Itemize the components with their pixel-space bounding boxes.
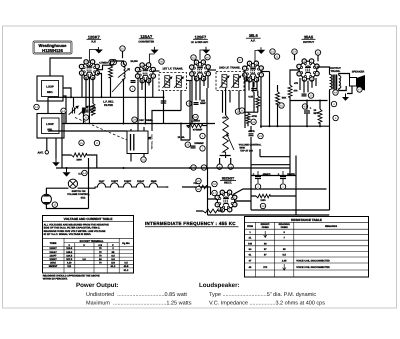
svg-text:470MMF: 470MMF (193, 129, 203, 132)
resistor surge in heater return (203, 209, 218, 213)
svg-text:1100: 1100 (260, 199, 266, 202)
svg-text:R.F.: R.F. (91, 41, 96, 44)
svg-text:35L6: 35L6 (249, 33, 259, 38)
svg-text:SOCKET TERMINAL: SOCKET TERMINAL (79, 240, 104, 243)
on-off switch circle (68, 179, 77, 188)
label rectifier 35Z5GT RECT. (220, 177, 236, 185)
wire output transformer primary lead down (329, 90, 331, 211)
oscillator transformer box (127, 131, 153, 154)
ref 23 right of 4mfd (258, 133, 263, 138)
electrolytic capacitor 20MFD filter (278, 171, 296, 183)
wire 4mfd hookup (250, 126, 252, 168)
svg-text:IS 117 V.A.C. SIGNAL VOLTAGE: IS 117 V.A.C. SIGNAL VOLTAGE IS ZERO. (44, 233, 92, 236)
ground at V3 grid cap (200, 47, 210, 60)
wire corner to osc trans (152, 111, 181, 132)
cap on x163.5 line (161, 101, 167, 103)
svg-text:0.05: 0.05 (248, 96, 253, 99)
wire y123.5 long horizontal (62, 123, 215, 125)
ref 21 top right of V4 (274, 54, 279, 59)
wire y126.2 bus (260, 125, 330, 127)
label L.F. REJ. FILTER (103, 100, 114, 106)
tube V2 12SA7 (135, 63, 155, 83)
transformer T3 core (333, 75, 336, 90)
node y100.5 x307 (306, 100, 308, 102)
ref 18 top right of V4 (270, 49, 275, 54)
trimmer capacitor oscillator section (134, 137, 143, 146)
ref 47 below speaker (357, 87, 362, 92)
cap 4MFD at vc (248, 130, 255, 136)
svg-text:LOOP: LOOP (46, 86, 54, 89)
label OUTPUT TRANS. (330, 67, 341, 73)
trimmer capacitor oscillator padder (141, 137, 150, 146)
svg-text:H125/H126: H125/H126 (42, 48, 63, 53)
wire x307 column (306, 101, 308, 127)
ground below loop primary (52, 158, 60, 166)
wire y156.7 stub (260, 149, 290, 157)
ref 31 below osc transformer (141, 157, 146, 162)
wire x62 vertical (61, 113, 63, 141)
svg-text:WITHIN 20 PERCENT.: WITHIN 20 PERCENT. (43, 278, 68, 281)
svg-text:ITEM: ITEM (247, 225, 253, 228)
ref 4 on B+ lead (331, 101, 336, 106)
resistor R 470K plate V4 (256, 96, 260, 107)
svg-text:43.5: 43.5 (124, 265, 129, 268)
tube V4 35L6 (243, 61, 264, 82)
svg-text:SEC.: SEC. (47, 91, 54, 94)
wire surge resistor (196, 209, 222, 211)
transformer T3 secondary (339, 76, 341, 89)
wire bottom bus y168 right part (207, 167, 290, 169)
ref 6 near det cap (186, 101, 191, 106)
model label box Westinghouse H125/H126 (33, 41, 72, 54)
wire V3 pins down (192, 76, 208, 124)
svg-text:12SK7: 12SK7 (49, 258, 57, 261)
ground at V2 grid cap (149, 47, 158, 64)
svg-text:LOOP: LOOP (46, 123, 54, 126)
svg-text:10,000: 10,000 (130, 60, 138, 63)
ref 45b above 20MFD (302, 104, 307, 109)
label tube V1 12SK7 R.F. (87, 34, 102, 43)
ref 33 left of V2 (111, 59, 116, 64)
svg-text:273: 273 (263, 266, 268, 269)
wire x73.5 vertical to trimmer (73, 97, 75, 107)
ref 40 right of V3 (205, 55, 210, 60)
wire V3 plate to T2 (208, 69, 216, 71)
svg-text:100MMF: 100MMF (194, 142, 204, 145)
svg-text:2.2MEG: 2.2MEG (191, 120, 200, 123)
node V1 screen bus (101, 96, 103, 98)
svg-text:INTERMEDIATE FREQUENCY : 455: INTERMEDIATE FREQUENCY : 455 KC (145, 221, 236, 226)
ref 14c with 6.3 label (78, 170, 87, 175)
ref 34 on avc divider (193, 114, 198, 119)
svg-text:6/12: 6/12 (81, 196, 86, 199)
svg-text:Power Output:: Power Output: (76, 282, 119, 289)
voltage and current table (43, 216, 134, 274)
ref 9 below volume control (217, 164, 222, 169)
wire ref19 stem to V5 (295, 54, 319, 61)
resistor R 2.2meg horizontal (187, 124, 203, 128)
svg-text:1ST I.F. TRANS.: 1ST I.F. TRANS. (162, 66, 183, 70)
wire rect right pin (235, 200, 251, 202)
resistance table (245, 217, 369, 278)
wire loop sec top to V1 grid (50, 58, 82, 76)
gang dashed coupling line (75, 118, 136, 145)
wire 56K column (277, 85, 279, 126)
svg-text:3300: 3300 (76, 159, 82, 162)
ref 3 on B+ lead (333, 115, 338, 120)
svg-text:2.95: 2.95 (282, 259, 287, 262)
wire wavetrap top joins (111, 61, 124, 97)
ref 11 right of vc top (235, 109, 240, 114)
wire V1 pins down (82, 75, 93, 124)
ground on bottom bus (63, 168, 71, 177)
ref 30 right of antenna trimmer (90, 106, 95, 111)
labels above filament bumps (99, 180, 157, 183)
wire x320 column (319, 101, 321, 127)
ref 17 heater lower (212, 190, 217, 195)
wire heater chain to rect (166, 186, 208, 188)
svg-text:A.F.: A.F. (251, 40, 256, 43)
svg-text:12SF7: 12SF7 (195, 34, 206, 39)
label tube V3 12SF7 I.F. & DET-AVC (191, 34, 209, 44)
svg-text:CONVERTER: CONVERTER (138, 40, 154, 43)
svg-text:91.2: 91.2 (111, 265, 116, 268)
svg-text:35A5: 35A5 (50, 262, 56, 265)
ref 1 under 20MFD (280, 184, 285, 189)
wire loop primary bottom to ground (55, 138, 57, 158)
svg-text:56K: 56K (282, 97, 287, 100)
svg-text:ANT.: ANT. (38, 151, 44, 154)
resistor R cathode V1 (91, 104, 95, 116)
wire x66 vertical (65, 111, 67, 124)
cap avc 100mmf (191, 146, 196, 148)
ref 44 on B+ lead (333, 90, 338, 95)
ref 19 upper-left of V5 (292, 49, 297, 54)
svg-text:Hg MA: Hg MA (122, 242, 130, 245)
svg-text:TUBE: TUBE (50, 242, 57, 245)
ref 14 left of antenna trimmer (61, 108, 66, 113)
filter section box wires (251, 156, 296, 216)
svg-text:4700: 4700 (252, 115, 258, 118)
cap 20MFD right (304, 109, 319, 115)
svg-text:245.0: 245.0 (66, 251, 73, 254)
wavetrap adjust arrow (112, 79, 124, 92)
ref 20 under V5 (308, 93, 313, 98)
label VOLUME CONTROL 500K TAP AT 100 (239, 143, 262, 152)
svg-text:112: 112 (67, 265, 72, 268)
resistor R 1100 filter (256, 194, 270, 198)
wire V1 screen right (97, 74, 102, 98)
svg-text:REMARKS: REMARKS (325, 225, 337, 228)
svg-text:OSC TRIMM.: OSC TRIMM. (139, 119, 154, 122)
cap C 0.05 at V4 grid (251, 89, 257, 91)
ref 37 near V1 plate resistor (109, 59, 114, 64)
loop antenna secondary box (37, 76, 63, 101)
svg-text:4.7MEG: 4.7MEG (99, 62, 108, 65)
wire y164.7 stub (251, 164, 290, 166)
svg-text:VOLTAGE AND CURRENT TABLE: VOLTAGE AND CURRENT TABLE (64, 217, 113, 221)
resistor R37 wave-trap (109, 66, 113, 78)
wire V5 plate to output transformer (317, 67, 330, 75)
ground at V4 grid cap (255, 47, 265, 61)
wire volume control bottom legs (220, 156, 231, 165)
band arrow at V2 (118, 69, 130, 78)
svg-text:12SF7: 12SF7 (111, 180, 119, 183)
svg-text:40MFD: 40MFD (263, 173, 271, 176)
heater filament chain (89, 183, 169, 188)
svg-text:Loudspeaker:: Loudspeaker: (199, 282, 240, 289)
svg-text:12SA7: 12SA7 (140, 34, 152, 39)
trimmer capacitor antenna padder (79, 106, 88, 115)
resistor R 1500 (318, 109, 322, 123)
wire 3300 hookup (62, 141, 97, 168)
note below voltage table (43, 274, 100, 280)
wire T2 secondary to V4 grid (244, 77, 247, 81)
wire AVC bus y97.3 (48, 96, 164, 98)
wire x207 vertical (206, 88, 208, 168)
ref 5 below 470MMF (200, 133, 205, 138)
svg-text:4MFD: 4MFD (248, 130, 255, 133)
label tube V4 35L6 A.F. (246, 33, 261, 43)
wire rect plate diagonal (233, 189, 327, 195)
tube V6 rectifier 35Z5GT (215, 190, 237, 212)
ref 35 near V2 left (121, 61, 126, 66)
ref 13 between loop boxes (34, 104, 39, 109)
svg-text:RECT.: RECT. (224, 181, 232, 184)
svg-text:12SK7: 12SK7 (124, 180, 132, 183)
svg-text:DM: DM (248, 242, 252, 245)
transformer T2 2nd IF (dashed box) (216, 72, 244, 91)
wire loop sec right pins (63, 88, 71, 124)
svg-text:12SA7: 12SA7 (49, 251, 57, 254)
svg-text:4.20: 4.20 (67, 262, 72, 265)
node at x71 y97 (70, 96, 72, 98)
svg-text:470: 470 (294, 90, 299, 93)
coil L wave-trap parallel (124, 64, 126, 79)
ref 27 left of V4 (237, 57, 242, 62)
wire V2 pins down (138, 78, 153, 132)
wire V4 pins down (245, 78, 261, 129)
svg-text:OHMS: OHMS (262, 226, 270, 229)
svg-text:110: 110 (111, 262, 116, 265)
wire x190 long vertical (189, 80, 191, 140)
wire speaker to ground (347, 86, 352, 94)
svg-text:35Z5GT: 35Z5GT (49, 265, 58, 268)
loop antenna primary box (37, 114, 64, 139)
transformer T1 1st IF (dashed box) (159, 73, 187, 91)
svg-text:MMF: MMF (200, 102, 206, 105)
wire heater to rectifier (207, 187, 211, 195)
note INTERMEDIATE FREQUENCY 455 KC (145, 221, 239, 227)
resistor R 56K (276, 92, 280, 105)
svg-text:20MFD: 20MFD (287, 173, 295, 176)
ref 7b below 100MMF (200, 146, 205, 151)
ref 29 osc trimmer note (132, 117, 137, 122)
wire y112 link (244, 112, 258, 126)
wire ref10 stem (122, 51, 124, 58)
cap at V5 cathode (302, 94, 307, 96)
svg-text:12SF7: 12SF7 (49, 254, 57, 257)
wire bottom bus y168 (56, 167, 207, 169)
wire V5 grid left (290, 70, 299, 85)
tube V1 12SK7 (79, 60, 99, 80)
antenna terminal ANT. (38, 151, 49, 155)
wire V4 plate right (261, 71, 269, 73)
ref 2b under 40MFD (255, 184, 260, 189)
trimmer capacitor antenna section (69, 106, 78, 115)
svg-text:2ND I.F. TRANS.: 2ND I.F. TRANS. (219, 66, 241, 70)
ref 8 below osc trimmer (94, 140, 99, 145)
svg-text:VOICE COIL DISCONNECTED: VOICE COIL DISCONNECTED (296, 259, 330, 262)
svg-text:VOICE COIL DISCONNECTED: VOICE COIL DISCONNECTED (296, 266, 330, 269)
ref 28 left avc (185, 142, 190, 147)
phono connector symbol (41, 194, 51, 204)
ref 46 left of rect lower (196, 186, 201, 191)
svg-text:107.0: 107.0 (66, 258, 73, 261)
cap at V1 cathode (84, 110, 89, 112)
svg-text:TRANS.: TRANS. (331, 70, 341, 73)
ref 41 under 56K (279, 103, 284, 108)
svg-text:91.2: 91.2 (124, 269, 129, 272)
svg-text:FILTER: FILTER (104, 104, 113, 107)
wire right B plus corner (296, 209, 330, 211)
wire osc box leads (131, 127, 144, 162)
label SWITCH ON VOLUME CONTROL 6/12 (67, 190, 90, 200)
wire y131 bus (48, 130, 127, 132)
wire left rail x48 (47, 97, 49, 113)
wire speaker leads (339, 74, 350, 91)
svg-text:OHMS: OHMS (281, 226, 289, 229)
svg-text:Type .........................: Type .............................5” dia… (209, 292, 316, 298)
ref 50 heater right (212, 181, 217, 186)
svg-text:12SK7: 12SK7 (49, 247, 57, 250)
svg-text:120.0: 120.0 (66, 247, 73, 250)
ref 43 under 4700 (251, 119, 256, 124)
svg-text:SPEAKER: SPEAKER (352, 71, 365, 74)
wire switch loop (46, 158, 88, 209)
svg-text:12A7: 12A7 (99, 180, 105, 183)
wire avc hookup (181, 124, 207, 141)
wire V2 plate to T1 primary (153, 70, 160, 72)
svg-text:47K: 47K (222, 117, 227, 120)
wire volume top feed (225, 88, 227, 115)
ref 36 under V1 (83, 115, 88, 120)
ref 25 on audio takeoff (201, 165, 206, 170)
ref 42 left of V3 (191, 55, 196, 60)
ground below output area (342, 94, 349, 101)
ref 24 left of V4 resistors (239, 108, 244, 113)
wire V1 plate to T1 (97, 65, 114, 70)
resistor in heater line (196, 185, 207, 189)
svg-text:VOLUME CONTROL: VOLUME CONTROL (67, 193, 90, 196)
svg-text:I.F. & DET-AVC: I.F. & DET-AVC (191, 41, 209, 44)
wire rectifier pins (208, 168, 330, 215)
svg-text:470: 470 (294, 82, 299, 85)
wire x181 vertical under T1 (180, 91, 182, 111)
resistor R 4700 under V4 (246, 113, 250, 123)
wire x123.5 down to bus (123, 83, 125, 124)
node bus junctions (66, 167, 68, 169)
electrolytic capacitor 40MFD (253, 171, 271, 183)
label tube V2 12SA7 CONVERTER (138, 34, 154, 44)
wire under T2 (223, 91, 240, 113)
wire filter connections (235, 196, 296, 201)
svg-text:V.C. Impedance ...............: V.C. Impedance .................3.2 ohms… (209, 300, 325, 306)
wire y100.5 mid (290, 100, 328, 102)
speaker (350, 75, 366, 91)
svg-text:Undistorted .................: Undistorted ............................… (86, 292, 187, 298)
ground at V1 grid cap (89, 47, 103, 61)
node y126 junctions (269, 125, 271, 127)
tube V3 12SF7 (190, 60, 211, 81)
ref 15 below connector (52, 202, 57, 207)
wire 470K stubs (254, 82, 258, 112)
svg-text:Maximum .....................: Maximum ................................… (86, 300, 192, 306)
volume control potentiometer 500K (223, 113, 234, 156)
ref 22 above V5 (315, 50, 320, 55)
transformer T3 output primary (330, 75, 332, 90)
svg-text:RESISTANCE TABLE: RESISTANCE TABLE (291, 218, 322, 222)
tube V5 35A5 (297, 59, 319, 81)
label tube V5 35A5 OUTPUT (302, 34, 316, 44)
ref 10 above V1 anode (120, 46, 125, 51)
ref 49 left of rect (196, 178, 201, 183)
svg-text:OSC. TRANS.: OSC. TRANS. (150, 134, 153, 150)
wire T1 secondary to V3 grid (187, 80, 192, 82)
wire x269.5 vertical (269, 72, 271, 127)
wire x163.5 vertical under T1 (163, 91, 165, 124)
resistor R 470K grid V5 (288, 85, 292, 97)
ref 7 under V2 cap (130, 86, 135, 91)
svg-text:35Z5GT: 35Z5GT (222, 177, 235, 181)
node junctions T1 (163, 96, 165, 98)
wire x290 down (289, 97, 291, 175)
svg-text:12SK7: 12SK7 (88, 34, 100, 39)
ref 32 on audio takeoff (191, 165, 196, 170)
svg-text:OUTPUT: OUTPUT (303, 41, 314, 44)
ref 12 below volume control (228, 164, 233, 169)
svg-text:124.5: 124.5 (66, 254, 73, 257)
ref 38 left of T1 label (159, 59, 164, 64)
ref 45 left of osc trimmer (79, 140, 84, 145)
resistor R 3300 (72, 153, 87, 157)
wire V5 pins down (300, 78, 316, 93)
cap under V2 (131, 81, 136, 83)
wire x83.5 trimmer drop (83, 108, 85, 124)
wire loop primary bottom to ANT terminal (46, 138, 48, 150)
ref 39 under 1100 (260, 203, 265, 208)
svg-text:35A5: 35A5 (151, 180, 157, 183)
svg-text:35A5: 35A5 (304, 34, 314, 39)
cap coupling det (194, 103, 199, 105)
svg-text:12SA7: 12SA7 (137, 180, 145, 183)
